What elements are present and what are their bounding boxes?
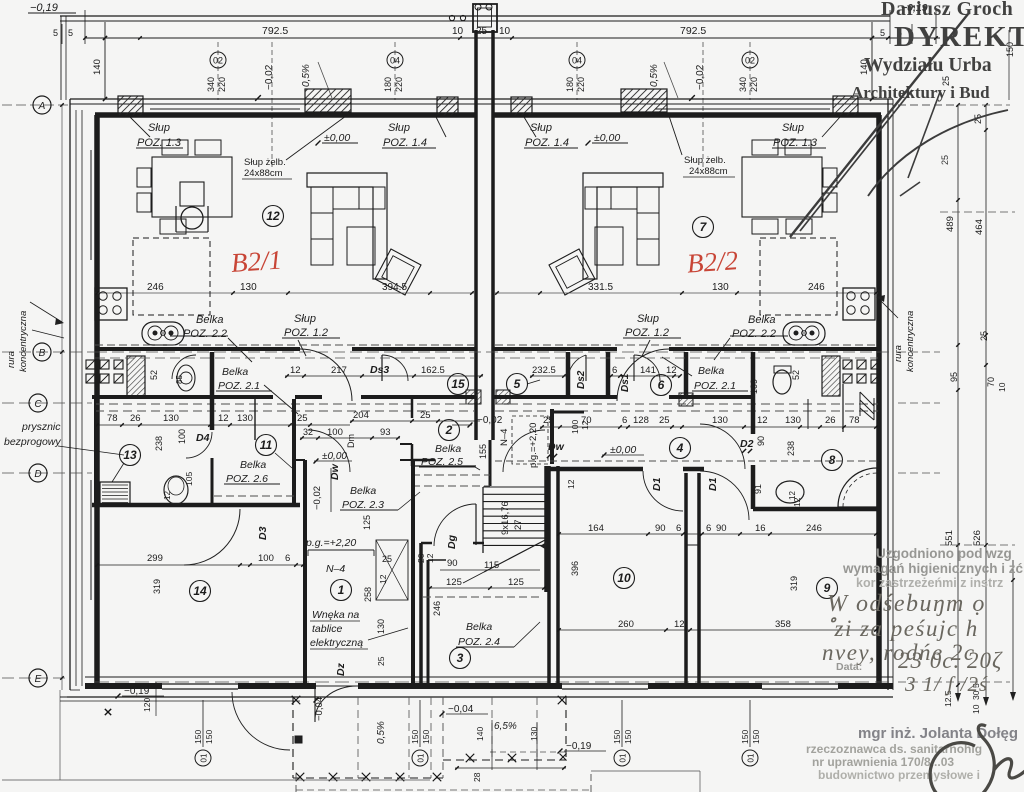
svg-text:16: 16 bbox=[755, 523, 766, 534]
svg-text:105: 105 bbox=[184, 472, 194, 486]
svg-text:D: D bbox=[34, 469, 41, 480]
dining table right unit bbox=[742, 140, 837, 234]
top exterior wall thin lines bbox=[70, 99, 893, 104]
svg-text:6: 6 bbox=[285, 553, 290, 564]
dim -0,02 rotated right bbox=[689, 42, 706, 170]
dim 109 rotated right bbox=[749, 379, 759, 394]
dim 105 rotated room13 bbox=[184, 472, 194, 486]
svg-text:14: 14 bbox=[193, 584, 207, 598]
svg-text:10: 10 bbox=[997, 382, 1007, 392]
bath8 fixture edges bbox=[808, 384, 843, 432]
svg-text:rura: rura bbox=[6, 351, 17, 368]
svg-text:01: 01 bbox=[200, 753, 209, 762]
porch cross marks bbox=[292, 696, 567, 781]
svg-text:125: 125 bbox=[508, 577, 524, 588]
svg-text:93: 93 bbox=[380, 427, 391, 438]
dim chain 125 125 bbox=[428, 577, 546, 590]
rura koncentryczna right bbox=[876, 295, 916, 372]
rura koncentryczna left bbox=[6, 302, 64, 372]
dim 232.5 bbox=[530, 365, 566, 378]
label N-4 rotated stair bbox=[499, 429, 510, 446]
svg-text:25: 25 bbox=[979, 331, 989, 341]
stamp line Wydzialu Urba bbox=[864, 55, 992, 76]
svg-text:POZ. 2.3: POZ. 2.3 bbox=[342, 499, 384, 511]
wall hall left vertical bbox=[294, 460, 305, 683]
axis 01 callout a bbox=[193, 700, 214, 766]
svg-text:24x88cm: 24x88cm bbox=[244, 168, 283, 179]
svg-text:Ds2: Ds2 bbox=[576, 370, 587, 389]
svg-text:6: 6 bbox=[622, 415, 627, 426]
dims 25 12 near stair bbox=[378, 554, 392, 584]
belka label POZ 2.6 bbox=[224, 459, 280, 485]
svg-text:130: 130 bbox=[240, 282, 257, 293]
room number 9 bbox=[817, 578, 838, 599]
wall right unit hall verticals bbox=[549, 466, 558, 683]
dim 52 rotated right bbox=[791, 370, 801, 380]
svg-text:D1: D1 bbox=[707, 477, 719, 491]
svg-text:kor zastrzeżeńmi z instrz: kor zastrzeżeńmi z instrz bbox=[856, 576, 1003, 590]
room 3 walls bbox=[428, 560, 446, 683]
washer symbols left bbox=[86, 360, 123, 383]
wall living-corridor right bbox=[493, 345, 878, 349]
svg-text:25: 25 bbox=[659, 415, 670, 426]
room 2 walls bbox=[400, 399, 412, 466]
svg-text:Wnęka na: Wnęka na bbox=[312, 609, 359, 621]
washbasin circle 85 left bbox=[175, 365, 195, 391]
svg-text:±0,00: ±0,00 bbox=[594, 132, 620, 144]
svg-text:464: 464 bbox=[974, 219, 985, 235]
top wall thick left unit bbox=[95, 112, 476, 118]
svg-text:5: 5 bbox=[53, 28, 58, 38]
svg-text:130: 130 bbox=[237, 413, 253, 424]
room number 15 bbox=[448, 374, 469, 395]
svg-text:POZ. 1.2: POZ. 1.2 bbox=[284, 327, 328, 339]
svg-text:POZ. 1.4: POZ. 1.4 bbox=[525, 137, 569, 149]
terrace door arc left bbox=[232, 692, 290, 750]
room number 14 bbox=[190, 581, 211, 602]
row marker C bbox=[29, 394, 47, 412]
stove 4 burners right bbox=[843, 288, 875, 320]
svg-text:6: 6 bbox=[658, 378, 665, 392]
dim -0,02 stair bbox=[452, 415, 503, 427]
dim -0,04 porch centre bbox=[440, 704, 488, 716]
svg-text:elektryczną: elektryczną bbox=[310, 637, 363, 649]
svg-text:E: E bbox=[35, 674, 42, 685]
dim -0,02 rotated left bbox=[255, 42, 275, 170]
level mark ±0,00 right bbox=[586, 132, 628, 145]
svg-text:150: 150 bbox=[623, 730, 633, 744]
grid row A dashed line bbox=[2, 104, 955, 106]
room2 dashed band bbox=[412, 475, 490, 486]
kitchen counter dashed left bbox=[133, 238, 210, 315]
stamp -0,19 overlay bbox=[901, 2, 928, 14]
svg-text:B2/1: B2/1 bbox=[230, 245, 283, 278]
svg-text:B: B bbox=[39, 348, 46, 359]
wneka text bbox=[310, 609, 408, 649]
wall hall right vertical bbox=[413, 460, 421, 683]
svg-text:217: 217 bbox=[331, 365, 347, 376]
dim 238 rotated room8 bbox=[786, 441, 796, 456]
room number 13 bbox=[112, 445, 141, 483]
dim 319 rotated room14 bbox=[152, 579, 162, 594]
svg-text:bezprogowy: bezprogowy bbox=[4, 436, 61, 448]
svg-text:25: 25 bbox=[940, 155, 950, 165]
dim text 792.5 right bbox=[680, 25, 706, 37]
slup zelb callout right bbox=[668, 113, 735, 177]
svg-text:−0,19: −0,19 bbox=[566, 741, 592, 752]
top dim line with ticks bbox=[83, 36, 940, 40]
svg-text:mgr inż. Jolanta Dołęg: mgr inż. Jolanta Dołęg bbox=[858, 725, 1018, 742]
belka label POZ 2.3 bbox=[340, 485, 420, 511]
right dim labels upper bbox=[941, 30, 1015, 124]
svg-text:150: 150 bbox=[612, 730, 622, 744]
door leaf Ds1 bbox=[634, 355, 660, 381]
wall top rooms 10-9 bbox=[495, 461, 878, 469]
prysznic leader bbox=[58, 446, 124, 455]
svg-text:396: 396 bbox=[570, 561, 580, 576]
svg-text:POZ. 2.4: POZ. 2.4 bbox=[458, 636, 500, 648]
room number 8 bbox=[822, 450, 843, 471]
top wall window sills bbox=[150, 108, 830, 110]
dim 155 rotated room2 bbox=[478, 444, 488, 459]
wall corridor left vertical bbox=[150, 395, 212, 397]
svg-text:POZ. 2.1: POZ. 2.1 bbox=[218, 380, 260, 392]
niche marks hall bbox=[376, 540, 408, 600]
svg-text:220: 220 bbox=[217, 77, 227, 92]
slup label POZ 1.3 left bbox=[130, 117, 183, 149]
svg-text:prysznic: prysznic bbox=[21, 421, 61, 433]
row marker B bbox=[33, 343, 51, 361]
svg-text:340: 340 bbox=[738, 77, 748, 92]
belka label POZ 2.4 bbox=[456, 621, 540, 648]
svg-text:130: 130 bbox=[163, 413, 179, 424]
svg-text:180: 180 bbox=[565, 77, 575, 92]
row marker E bbox=[29, 669, 47, 687]
column block top-right hatched bbox=[833, 96, 858, 116]
bottom guide lines bbox=[2, 690, 700, 792]
dim chain corridor left bbox=[285, 364, 483, 378]
svg-text:Słup żelb.: Słup żelb. bbox=[244, 157, 286, 168]
right dim line 1 bbox=[955, 103, 961, 702]
svg-text:140: 140 bbox=[92, 59, 103, 75]
svg-text:12: 12 bbox=[218, 413, 229, 424]
room number 1 bbox=[331, 580, 352, 601]
svg-text:100: 100 bbox=[258, 553, 274, 564]
svg-text:792.5: 792.5 bbox=[680, 25, 706, 37]
svg-text:3: 3 bbox=[457, 651, 464, 665]
svg-text:D4: D4 bbox=[196, 432, 210, 444]
svg-text:26: 26 bbox=[825, 415, 836, 426]
svg-text:394.5: 394.5 bbox=[382, 282, 407, 293]
belka label POZ 2.2 left bbox=[170, 314, 252, 362]
right dim line 2 bbox=[983, 103, 989, 706]
sofa right unit corner couch bbox=[583, 173, 663, 279]
labels D1 D1 bbox=[651, 477, 719, 491]
svg-text:319: 319 bbox=[789, 576, 799, 591]
dim chain room11 bbox=[300, 427, 400, 440]
svg-text:budownictwo przemysłowe i: budownictwo przemysłowe i bbox=[818, 768, 980, 782]
svg-text:27: 27 bbox=[513, 519, 524, 530]
column block right of party wall bbox=[511, 97, 532, 116]
vertical dim 140 left bbox=[92, 22, 107, 101]
slup label POZ 1.2 left bbox=[282, 313, 340, 356]
door Dg label bbox=[446, 534, 458, 549]
svg-text:Słup: Słup bbox=[148, 122, 170, 134]
svg-text:10: 10 bbox=[971, 704, 981, 714]
svg-text:150: 150 bbox=[410, 730, 420, 744]
roof edge double line top bbox=[60, 16, 890, 21]
stove 4 burners left bbox=[95, 288, 127, 320]
svg-text:125: 125 bbox=[362, 515, 372, 530]
svg-text:95: 95 bbox=[949, 372, 959, 382]
stamp signature diagonals bbox=[790, 14, 1008, 237]
svg-text:koncentryczna: koncentryczna bbox=[905, 311, 916, 372]
door Ds1 labels bbox=[609, 365, 682, 392]
door label Dw right bbox=[503, 409, 590, 472]
washer symbols right bbox=[843, 360, 880, 383]
wall mid right unit bbox=[606, 352, 611, 399]
internal dim chain living right bbox=[495, 282, 878, 295]
grid row C dashed bbox=[2, 402, 940, 404]
svg-text:90: 90 bbox=[447, 558, 458, 569]
left roof edge verticals bbox=[61, 16, 66, 100]
room 11 walls bbox=[255, 399, 294, 507]
svg-text:12: 12 bbox=[266, 209, 280, 223]
slup zelb callout left bbox=[242, 113, 350, 179]
door label D2 bbox=[700, 424, 754, 469]
label N-4 hall bbox=[326, 563, 345, 575]
porch door arc bbox=[315, 684, 357, 722]
svg-text:5: 5 bbox=[68, 28, 73, 38]
dim 12 rotated room8 bbox=[792, 497, 802, 507]
svg-text:−0,19: −0,19 bbox=[124, 686, 150, 697]
svg-text:115: 115 bbox=[484, 560, 499, 571]
svg-text:POZ. 1.3: POZ. 1.3 bbox=[137, 137, 182, 149]
svg-text:220: 220 bbox=[394, 77, 404, 92]
svg-text:10: 10 bbox=[617, 571, 631, 585]
approval stamp line3 bbox=[856, 576, 1003, 590]
svg-text:0,5%: 0,5% bbox=[301, 64, 312, 87]
bathroom13 bottom wall bbox=[92, 503, 300, 508]
shower grate room13 bbox=[100, 482, 130, 506]
svg-text:258: 258 bbox=[363, 587, 373, 602]
svg-text:N–4: N–4 bbox=[499, 429, 510, 446]
svg-text:ํzi za peśujc h: ํzi za peśujc h bbox=[830, 616, 979, 641]
door label Dw left bbox=[308, 430, 350, 480]
slup label POZ 1.4 right-centre bbox=[524, 117, 578, 149]
belka label POZ 2.5 bbox=[419, 443, 480, 470]
dim 6,5% porch bbox=[494, 721, 517, 732]
svg-text:B2/2: B2/2 bbox=[686, 245, 739, 278]
svg-text:8: 8 bbox=[829, 453, 836, 467]
svg-text:150: 150 bbox=[751, 730, 761, 744]
stair nook walls bbox=[421, 504, 484, 546]
pg 2,20 hall bbox=[305, 537, 374, 556]
svg-text:130: 130 bbox=[376, 619, 386, 634]
svg-text:rura: rura bbox=[893, 345, 904, 362]
grid row D dashed bbox=[2, 472, 940, 474]
svg-text:100: 100 bbox=[327, 427, 343, 438]
svg-text:100: 100 bbox=[177, 429, 187, 444]
svg-text:N–4: N–4 bbox=[326, 563, 345, 575]
right dim labels mid bbox=[945, 216, 1007, 392]
door arc corridor to living right bbox=[617, 349, 669, 401]
rooms 10-9 lower chain bbox=[557, 619, 878, 632]
svg-text:204: 204 bbox=[353, 410, 369, 421]
kitchen sink left bbox=[142, 322, 184, 345]
dim -0,19 porch bbox=[558, 741, 606, 753]
svg-text:141: 141 bbox=[640, 365, 656, 376]
svg-text:331.5: 331.5 bbox=[588, 282, 613, 293]
svg-text:232.5: 232.5 bbox=[532, 365, 556, 376]
svg-text:12: 12 bbox=[290, 365, 301, 376]
left exterior thick wall bbox=[94, 115, 100, 683]
axis 01 callout d bbox=[740, 700, 761, 766]
svg-text:±0,00: ±0,00 bbox=[324, 132, 350, 144]
toilet room13 bbox=[163, 476, 188, 504]
svg-text:02: 02 bbox=[745, 56, 755, 66]
svg-text:15: 15 bbox=[451, 377, 465, 391]
svg-text:25: 25 bbox=[382, 554, 392, 564]
svg-text:11: 11 bbox=[260, 438, 273, 452]
bottom exterior wall bbox=[67, 677, 893, 697]
dim 140 130 rotated porch bbox=[475, 727, 539, 741]
wall row C left bbox=[92, 395, 476, 399]
pilaster top wall left hatched bbox=[305, 89, 351, 112]
svg-text:POZ. 2.2: POZ. 2.2 bbox=[183, 328, 227, 340]
svg-text:Uzgodniono pod wzg: Uzgodniono pod wzg bbox=[876, 546, 1012, 561]
slup label POZ 1.2 right bbox=[623, 313, 681, 356]
dim 28 rotated porch bottom bbox=[472, 772, 482, 782]
svg-text:10: 10 bbox=[452, 26, 464, 37]
dim 52 rotated left bbox=[149, 370, 159, 380]
belka label POZ 2.1 right bbox=[662, 357, 748, 392]
dim 0,5% rotated left bbox=[301, 62, 332, 98]
svg-text:246: 246 bbox=[806, 523, 822, 534]
svg-text:−0,19: −0,19 bbox=[30, 2, 58, 14]
svg-text:24x88cm: 24x88cm bbox=[689, 166, 728, 177]
svg-text:6: 6 bbox=[706, 523, 711, 534]
axis callout 04 left bbox=[383, 42, 404, 100]
svg-text:±0,00: ±0,00 bbox=[610, 444, 636, 456]
level ±0,00 room4 bbox=[602, 444, 644, 457]
armchair rotated right unit bbox=[549, 249, 595, 295]
corridor dashed belka lines bbox=[95, 357, 878, 359]
duct hatch right wall bbox=[860, 392, 874, 420]
svg-text:01: 01 bbox=[747, 753, 756, 762]
svg-text:238: 238 bbox=[154, 436, 164, 451]
svg-text:Belka: Belka bbox=[222, 366, 248, 378]
dim text 10 25 10 centre bbox=[452, 26, 511, 37]
svg-text:150: 150 bbox=[193, 730, 203, 744]
mgr stamp line3 bbox=[812, 755, 954, 769]
svg-text:28: 28 bbox=[472, 772, 482, 782]
svg-text:52: 52 bbox=[149, 370, 159, 380]
mgr stamp line2 bbox=[806, 742, 982, 756]
svg-text:551: 551 bbox=[944, 530, 955, 546]
svg-text:155: 155 bbox=[478, 444, 488, 459]
svg-text:12: 12 bbox=[378, 574, 388, 584]
dim 246 rotated room3 bbox=[432, 601, 442, 616]
axis callout 02 right bbox=[738, 42, 759, 100]
svg-text:12: 12 bbox=[163, 491, 172, 500]
stair rotated label bbox=[500, 501, 524, 535]
dim 91 rotated room8 bbox=[753, 484, 763, 494]
wall living-corridor left bbox=[95, 345, 476, 349]
svg-text:220: 220 bbox=[576, 77, 586, 92]
corner shower room8 bbox=[838, 468, 877, 507]
room number 11 bbox=[256, 435, 293, 469]
handwriting data label bbox=[836, 661, 862, 673]
dim 130 rotated hall bbox=[376, 619, 386, 634]
tall cupboard hatched right bbox=[822, 356, 840, 396]
svg-text:POZ. 1.4: POZ. 1.4 bbox=[383, 137, 427, 149]
room3 dashed belka bbox=[423, 596, 540, 598]
svg-text:Data:: Data: bbox=[836, 661, 862, 673]
svg-text:0,5%: 0,5% bbox=[649, 64, 660, 87]
dim 319 rotated room9 bbox=[789, 576, 799, 591]
svg-text:130: 130 bbox=[785, 415, 801, 426]
door Dz label bbox=[335, 662, 347, 676]
door D3 arc bbox=[184, 509, 240, 565]
dim chain upper rooms right bbox=[540, 415, 878, 429]
door label D4 bbox=[186, 432, 212, 458]
grid row B dashed bbox=[2, 351, 940, 353]
dim 125 rotated hall bbox=[362, 515, 372, 530]
svg-text:150: 150 bbox=[740, 730, 750, 744]
right exterior thick wall bbox=[876, 115, 882, 683]
svg-text:3 1/ ʃ /2ś: 3 1/ ʃ /2ś bbox=[904, 672, 988, 696]
room number 4 bbox=[670, 438, 691, 459]
dim chain upper rooms mid bbox=[350, 410, 480, 423]
svg-text:130: 130 bbox=[712, 415, 728, 426]
dim 238 rotated room13 bbox=[154, 436, 164, 451]
svg-text:125: 125 bbox=[446, 577, 462, 588]
svg-text:02: 02 bbox=[213, 56, 223, 66]
svg-text:04: 04 bbox=[390, 56, 400, 66]
room number 5 bbox=[507, 374, 541, 395]
wall stair top bbox=[413, 460, 476, 466]
svg-text:85: 85 bbox=[175, 375, 184, 384]
prysznic text bbox=[4, 421, 61, 448]
svg-text:78: 78 bbox=[849, 415, 860, 426]
svg-text:−0,02: −0,02 bbox=[477, 415, 503, 426]
divider wall rooms 10-9 bbox=[686, 473, 699, 683]
svg-text:p.g.=+2,20: p.g.=+2,20 bbox=[305, 537, 356, 549]
level mark ±0,00 left bbox=[316, 132, 358, 145]
stair diagonal cut bbox=[463, 539, 548, 583]
handwritten B2/2 red bbox=[686, 245, 739, 278]
room number 7 bbox=[693, 217, 714, 238]
svg-text:246: 246 bbox=[147, 282, 164, 293]
tall cupboard hatched left bbox=[127, 356, 145, 396]
svg-text:W odśebuŋm ọ: W odśebuŋm ọ bbox=[827, 591, 986, 617]
svg-text:12: 12 bbox=[580, 420, 590, 430]
dim text 792.5 left bbox=[262, 25, 288, 37]
svg-text:140: 140 bbox=[475, 727, 485, 741]
dim -0,02 rotated hall1 bbox=[312, 468, 331, 512]
svg-text:150: 150 bbox=[204, 730, 214, 744]
room number 6 bbox=[651, 375, 672, 396]
dim 396 rotated room10 bbox=[570, 561, 580, 576]
mgr stamp line1 bbox=[858, 725, 1018, 742]
wheelchair symbol left unit bbox=[176, 182, 208, 232]
svg-text:100: 100 bbox=[570, 420, 580, 434]
svg-text:±0,00: ±0,00 bbox=[322, 451, 347, 462]
svg-text:Belka: Belka bbox=[196, 314, 224, 326]
svg-text:Dm: Dm bbox=[346, 434, 356, 448]
svg-text:−0,02: −0,02 bbox=[312, 486, 323, 510]
